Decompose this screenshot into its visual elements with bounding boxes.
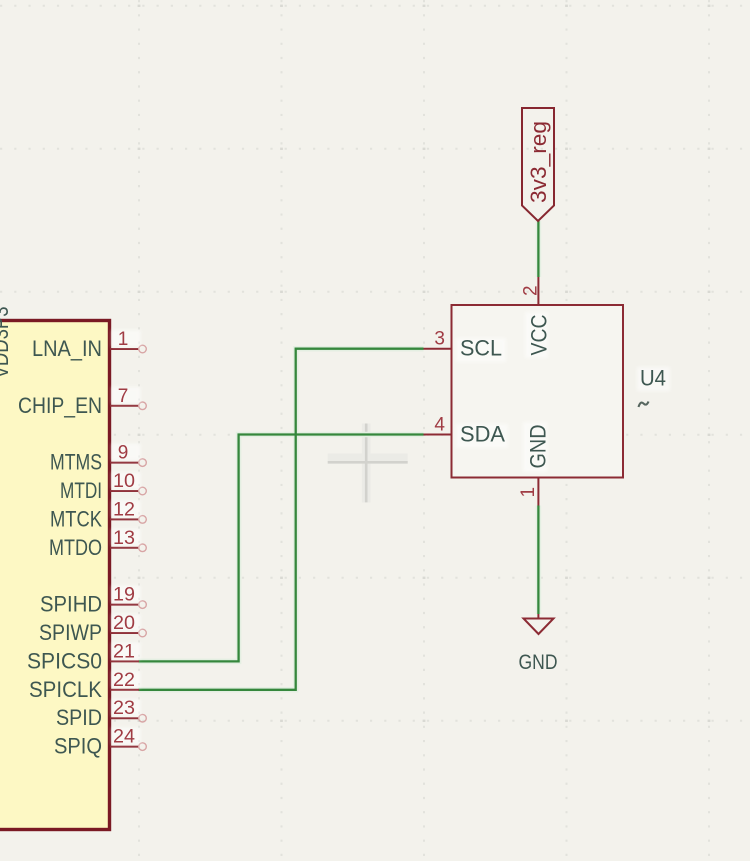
svg-text:20: 20 xyxy=(113,613,135,634)
svg-text:1: 1 xyxy=(518,487,539,498)
svg-text:SCL: SCL xyxy=(460,336,502,361)
svg-text:SDA: SDA xyxy=(460,422,505,447)
svg-text:SPIWP: SPIWP xyxy=(39,620,102,645)
svg-text:SPIQ: SPIQ xyxy=(54,734,102,759)
svg-text:7: 7 xyxy=(118,386,129,407)
svg-text:MTMS: MTMS xyxy=(50,450,102,475)
svg-text:GND: GND xyxy=(519,651,558,674)
svg-text:22: 22 xyxy=(113,670,135,691)
svg-text:VCC: VCC xyxy=(527,314,552,355)
svg-text:1: 1 xyxy=(118,329,129,350)
svg-text:U4: U4 xyxy=(640,366,666,391)
svg-text:MTDO: MTDO xyxy=(49,535,102,560)
svg-text:10: 10 xyxy=(113,471,135,492)
svg-text:3: 3 xyxy=(434,329,445,350)
svg-text:9: 9 xyxy=(118,443,129,464)
svg-text:19: 19 xyxy=(113,585,135,606)
svg-text:21: 21 xyxy=(113,641,135,662)
svg-text:MTDI: MTDI xyxy=(60,478,102,503)
svg-text:SPICLK: SPICLK xyxy=(29,677,102,702)
svg-text:24: 24 xyxy=(113,727,135,748)
svg-text:SPICS0: SPICS0 xyxy=(27,648,102,673)
svg-text:LNA_IN: LNA_IN xyxy=(32,336,102,361)
svg-text:SPIHD: SPIHD xyxy=(40,592,102,617)
svg-text:23: 23 xyxy=(113,698,135,719)
svg-text:2: 2 xyxy=(521,285,542,296)
svg-text:SPID: SPID xyxy=(56,705,102,730)
svg-text:CHIP_EN: CHIP_EN xyxy=(18,393,102,418)
svg-text:13: 13 xyxy=(113,528,135,549)
svg-text:12: 12 xyxy=(113,499,135,520)
svg-text:3v3_reg: 3v3_reg xyxy=(526,121,551,203)
svg-text:MTCK: MTCK xyxy=(50,506,102,531)
svg-text:GND: GND xyxy=(526,425,551,469)
svg-text:4: 4 xyxy=(434,415,445,436)
svg-text:VDD3P3: VDD3P3 xyxy=(0,307,13,379)
